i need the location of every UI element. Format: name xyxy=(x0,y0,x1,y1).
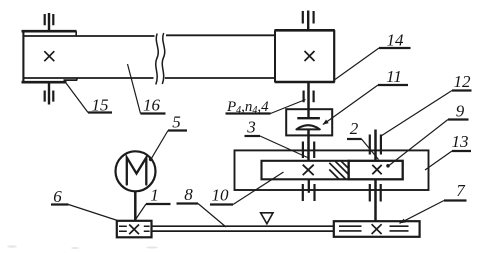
coupling 11 housing xyxy=(286,109,332,135)
svg-text:16: 16 xyxy=(143,96,161,115)
motor 5 body xyxy=(116,151,156,191)
leader line 6 xyxy=(69,205,118,221)
drum 15 axis cross xyxy=(44,51,54,61)
left shaft lower stub xyxy=(308,179,310,193)
leader line 8 xyxy=(198,204,226,228)
bearing above drum 14 xyxy=(303,11,314,31)
leader line 16 xyxy=(128,64,141,114)
svg-text:6: 6 xyxy=(53,187,62,206)
shaft 2 lower run to pulley 7 xyxy=(374,179,377,221)
belt break wavy lines xyxy=(156,33,165,85)
bearing above drum 15 xyxy=(45,13,54,31)
coupling 11 lower dome element xyxy=(296,125,319,129)
leader line 12 xyxy=(381,91,452,137)
gearbox housing 13 xyxy=(235,150,429,190)
bearing below drum 15 xyxy=(45,83,54,104)
pulley 6 belt dashes xyxy=(119,226,150,231)
belt 8 xyxy=(152,226,335,231)
svg-text:13: 13 xyxy=(452,132,469,151)
leader line 2 xyxy=(362,139,379,160)
leader line 5 xyxy=(151,131,168,159)
leader line 14 xyxy=(335,48,379,80)
svg-text:9: 9 xyxy=(456,102,465,121)
hatched hub section xyxy=(329,161,348,179)
shaft 4 (drum to coupling) xyxy=(307,82,310,109)
bearing below left shaft xyxy=(303,184,315,201)
pulley 7 (driven) xyxy=(334,221,420,237)
drive drum 14 (right) xyxy=(275,30,335,82)
pulley 7 belt dashes xyxy=(339,226,409,231)
bearing on shaft 3 top xyxy=(303,142,314,159)
shaft 3 (coupling to gearbox) xyxy=(307,129,310,161)
svg-text:12: 12 xyxy=(454,72,472,91)
svg-text:11: 11 xyxy=(386,67,402,86)
pulley 7 axis cross xyxy=(372,224,382,234)
label underlines xyxy=(51,48,472,205)
worm 9 (right gear block) xyxy=(349,161,403,180)
leader line 9 xyxy=(389,120,448,166)
svg-text:5: 5 xyxy=(172,113,181,132)
conveyor belt 16 top run xyxy=(24,34,276,37)
worm 9 axis cross xyxy=(372,165,381,174)
worm wheel 10 axis cross xyxy=(303,165,314,175)
arrowhead leader 7 xyxy=(400,219,406,224)
svg-text:3: 3 xyxy=(246,118,256,137)
leader line 7 xyxy=(400,201,445,224)
conveyor belt 16 bottom run xyxy=(24,77,276,79)
pulley 6 axis cross xyxy=(129,225,139,235)
svg-text:1: 1 xyxy=(150,186,159,205)
arrowhead leader 11 xyxy=(323,120,329,125)
leader line 11 xyxy=(323,85,378,125)
svg-text:10: 10 xyxy=(212,186,230,205)
leader line 4 (P4 n4) xyxy=(271,100,306,114)
shaft 1 (motor to pulley 6) xyxy=(134,191,137,220)
leader line 10 xyxy=(233,172,284,205)
svg-text:8: 8 xyxy=(184,185,193,204)
datum triangle on belt xyxy=(261,213,273,224)
svg-text:P4,n4,4: P4,n4,4 xyxy=(226,99,269,116)
bearing on shaft 2 top xyxy=(370,135,381,155)
bearing on shaft 2 bottom xyxy=(370,184,381,202)
coupling 11 upper half bar xyxy=(297,109,320,118)
svg-text:15: 15 xyxy=(92,96,109,115)
leader line 15 xyxy=(66,83,88,113)
dot on motor (leader 5 end) xyxy=(149,157,153,161)
leader line 3 xyxy=(260,136,308,158)
bearing on shaft 4 xyxy=(304,91,314,103)
scan smudge bottom xyxy=(7,245,158,249)
svg-text:2: 2 xyxy=(350,119,359,138)
worm wheel 10 (left gear block) xyxy=(262,161,349,180)
leader line 1 xyxy=(136,204,147,220)
leader line 13 xyxy=(425,151,452,170)
pulley 6 (driving) xyxy=(117,221,152,238)
drum 14 axis cross xyxy=(305,51,315,61)
shaft 2 (input, upper free end) xyxy=(374,130,377,161)
motor letter M xyxy=(127,158,147,185)
svg-text:7: 7 xyxy=(456,181,466,200)
dot on worm (leader 9 end) xyxy=(386,164,390,168)
svg-text:14: 14 xyxy=(387,31,405,50)
drum 15 (left tension drum) xyxy=(22,31,78,84)
